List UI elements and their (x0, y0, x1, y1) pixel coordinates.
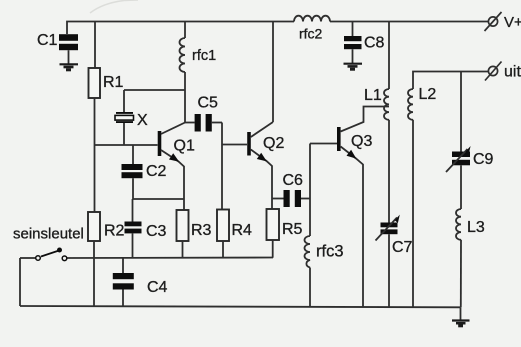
capacitor C4 (113, 258, 168, 306)
wire C8 top feed (352, 22, 354, 37)
wire C7 bottom to ground rail (388, 234, 390, 307)
resistor R2 (88, 212, 125, 241)
wire R2 bottom to ground rail (93, 241, 95, 306)
wire Q2 base link (222, 144, 247, 146)
wire L1 bottom to C7 (388, 120, 390, 223)
wire Q3 base column (309, 144, 311, 237)
svg-text:X: X (137, 112, 148, 129)
inductor L1 (tapped) (364, 87, 389, 120)
wire C2 bottom to Q1 emitter (133, 198, 184, 200)
svg-text:seinsleutel: seinsleutel (13, 226, 84, 243)
wire rfc1 top feed (184, 22, 186, 39)
variable capacitor C7 (376, 215, 413, 256)
capacitor C3 (125, 199, 167, 258)
variable capacitor C9 (446, 146, 494, 172)
wire R1 bottom to base node (94, 98, 96, 212)
wire R1 top feed (94, 22, 96, 69)
wire C9 to L3 (460, 165, 462, 209)
wire L2 bottom to ground rail (412, 120, 414, 307)
svg-text:rfc3: rfc3 (316, 243, 344, 261)
svg-text:V+: V+ (504, 14, 521, 31)
svg-text:L1: L1 (364, 87, 382, 104)
svg-text:C9: C9 (473, 151, 494, 168)
wire top V+ rail right section (330, 21, 489, 23)
wire C9 column top (460, 72, 462, 152)
capacitor C8 (344, 35, 385, 64)
capacitor C1 (37, 32, 78, 64)
svg-text:C2: C2 (146, 163, 167, 180)
svg-text:C5: C5 (198, 95, 219, 112)
svg-text:C4: C4 (147, 279, 168, 296)
wire crystal node to rfc1 column (124, 89, 185, 91)
transistor Q3 (337, 107, 389, 308)
capacitor C6 (272, 172, 310, 207)
terminal uit (485, 62, 521, 81)
svg-text:C1: C1 (37, 32, 58, 49)
svg-text:C6: C6 (283, 172, 304, 189)
svg-text:C7: C7 (392, 239, 413, 256)
ground (below C8) (344, 64, 363, 69)
crystal X (115, 112, 148, 129)
wire switch left loop to ground rail (19, 258, 21, 306)
svg-text:R3: R3 (191, 222, 212, 239)
switch seinsleutel (13, 226, 84, 261)
wire L1 top feed (388, 22, 390, 90)
capacitor C2 (122, 145, 167, 199)
ground (below C1) (60, 64, 79, 70)
terminal V+ (485, 12, 521, 31)
svg-text:R2: R2 (104, 223, 125, 240)
wire R5 bottom (272, 240, 274, 258)
svg-text:L3: L3 (467, 219, 485, 236)
wire rfc1 bottom to Q1 collector node (184, 72, 186, 123)
svg-text:Q3: Q3 (351, 133, 372, 150)
wire rfc3 bottom to ground rail (309, 268, 311, 307)
inductor L2 (408, 86, 436, 120)
svg-text:R5: R5 (282, 221, 303, 238)
inductor rfc1 (180, 38, 217, 72)
wire crystal upper stem (123, 90, 125, 113)
wire bottom ground rail (20, 306, 461, 307)
svg-text:C8: C8 (364, 35, 385, 52)
wire crystal top link (123, 123, 125, 146)
ground (bottom right) (452, 307, 470, 326)
svg-text:rfc2: rfc2 (299, 26, 323, 42)
transistor Q2 (247, 122, 284, 209)
svg-text:rfc1: rfc1 (192, 48, 216, 64)
wire L3 bottom to ground rail (460, 240, 462, 307)
resistor R3 (177, 210, 212, 241)
svg-text:Q1: Q1 (174, 138, 195, 155)
wire Q2 collector to V+ rail (272, 22, 274, 123)
svg-text:R1: R1 (103, 74, 124, 91)
transistor Q1 (158, 123, 195, 211)
inductor rfc3 (305, 236, 344, 268)
resistor R4 (217, 210, 252, 242)
wire emitter bias rail (R2..R5 bottoms) (67, 257, 273, 260)
svg-text:C3: C3 (146, 223, 167, 240)
wire R3 bottom (182, 241, 184, 258)
svg-text:uit: uit (504, 64, 521, 81)
inductor rfc2 (inline on V+ rail) (294, 16, 330, 22)
svg-text:Q2: Q2 (263, 135, 284, 152)
capacitor C5 (185, 95, 222, 132)
wire top V+ rail left section (67, 22, 294, 35)
wire Q3 base link (310, 143, 337, 145)
resistor R5 (267, 209, 303, 240)
wire C5 right to R4 column (221, 123, 223, 210)
svg-text:L2: L2 (419, 86, 437, 103)
resistor R1 (89, 68, 124, 98)
wire L2 top corner (413, 72, 489, 90)
svg-text:R4: R4 (232, 222, 253, 239)
wire R4 bottom (222, 241, 224, 258)
wire Q1 base rail (94, 144, 158, 146)
inductor L3 (456, 209, 485, 240)
